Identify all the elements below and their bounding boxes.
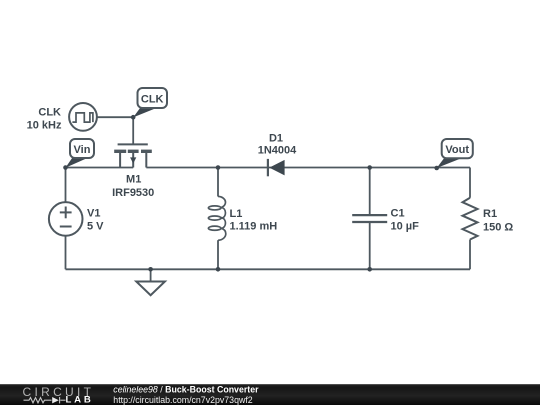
label D1 1N4004 — [258, 133, 297, 157]
label C1 10 uF — [391, 208, 420, 233]
wire clock to gate — [97, 116, 133, 118]
ground — [136, 282, 165, 296]
wire L1 bottom lead — [217, 240, 219, 269]
svg-text:celinelee98 / Buck-Boost Conve: celinelee98 / Buck-Boost Converter — [113, 384, 259, 394]
clock source CLK 10 kHz — [69, 103, 97, 131]
svg-text:R1: R1 — [483, 208, 497, 220]
wire left vertical below V1 — [65, 236, 67, 270]
svg-text:1.119 mH: 1.119 mH — [230, 221, 278, 233]
svg-text:Vin: Vin — [74, 144, 91, 156]
svg-text:Vout: Vout — [445, 144, 469, 156]
junction dot L1 bottom — [216, 267, 221, 272]
wire right vertical above R1 — [469, 168, 471, 198]
wire L1 top lead — [217, 168, 219, 197]
junction dot ground — [148, 267, 153, 272]
inductor L1 — [208, 196, 225, 240]
resistor R1 — [463, 198, 478, 240]
wire C1 bottom lead — [369, 222, 371, 269]
junction dot Vin corner — [63, 165, 68, 170]
label R1 150 ohm — [483, 208, 513, 234]
voltage source V1 — [49, 202, 83, 236]
label V1 5 V — [87, 208, 104, 233]
svg-text:10 kHz: 10 kHz — [27, 120, 62, 132]
logo CIRCUIT LAB — [23, 385, 95, 405]
label L1 1.119 mH — [230, 208, 278, 233]
svg-text:C1: C1 — [391, 208, 405, 220]
svg-text:150 Ω: 150 Ω — [483, 222, 513, 234]
svg-text:CLK: CLK — [38, 107, 61, 119]
svg-text:D1: D1 — [269, 133, 283, 145]
svg-text:M1: M1 — [126, 173, 141, 185]
svg-text:5 V: 5 V — [87, 221, 104, 233]
wire left vertical above V1 — [65, 168, 67, 203]
svg-text:http://circuitlab.com/cn7v2pv7: http://circuitlab.com/cn7v2pv73qwf2 — [113, 395, 252, 405]
capacitor C1 — [352, 215, 387, 222]
flag CLK — [133, 88, 167, 117]
svg-text:IRF9530: IRF9530 — [112, 187, 154, 199]
junction dot C1 top — [367, 165, 372, 170]
wire top from M1 drain to R1 corner — [146, 167, 470, 169]
label M1 IRF9530 — [112, 173, 154, 198]
footer text — [113, 384, 259, 405]
label CLK 10 kHz — [27, 107, 62, 132]
junction dot C1 bottom — [367, 267, 372, 272]
svg-text:LAB: LAB — [66, 395, 94, 405]
wire right vertical below R1 — [469, 240, 471, 270]
junction dot Vout — [434, 166, 439, 171]
svg-text:CLK: CLK — [141, 94, 164, 106]
diode D1 — [268, 159, 285, 176]
svg-text:V1: V1 — [87, 208, 100, 220]
svg-text:10 µF: 10 µF — [391, 221, 420, 233]
svg-text:1N4004: 1N4004 — [258, 145, 297, 157]
junction dot CLK gate — [131, 115, 136, 120]
junction dot L1 top — [216, 165, 221, 170]
wire bottom — [66, 268, 471, 270]
flag Vout — [437, 139, 473, 168]
wire C1 top lead — [369, 168, 371, 216]
wire ground stub — [150, 269, 152, 281]
svg-text:L1: L1 — [230, 208, 243, 220]
wire gate vertical — [132, 117, 134, 144]
transistor M1 (PMOS IRF9530) — [114, 144, 152, 167]
wire top from Vin corner to M1 source area — [66, 167, 134, 169]
flag Vin — [65, 139, 94, 168]
